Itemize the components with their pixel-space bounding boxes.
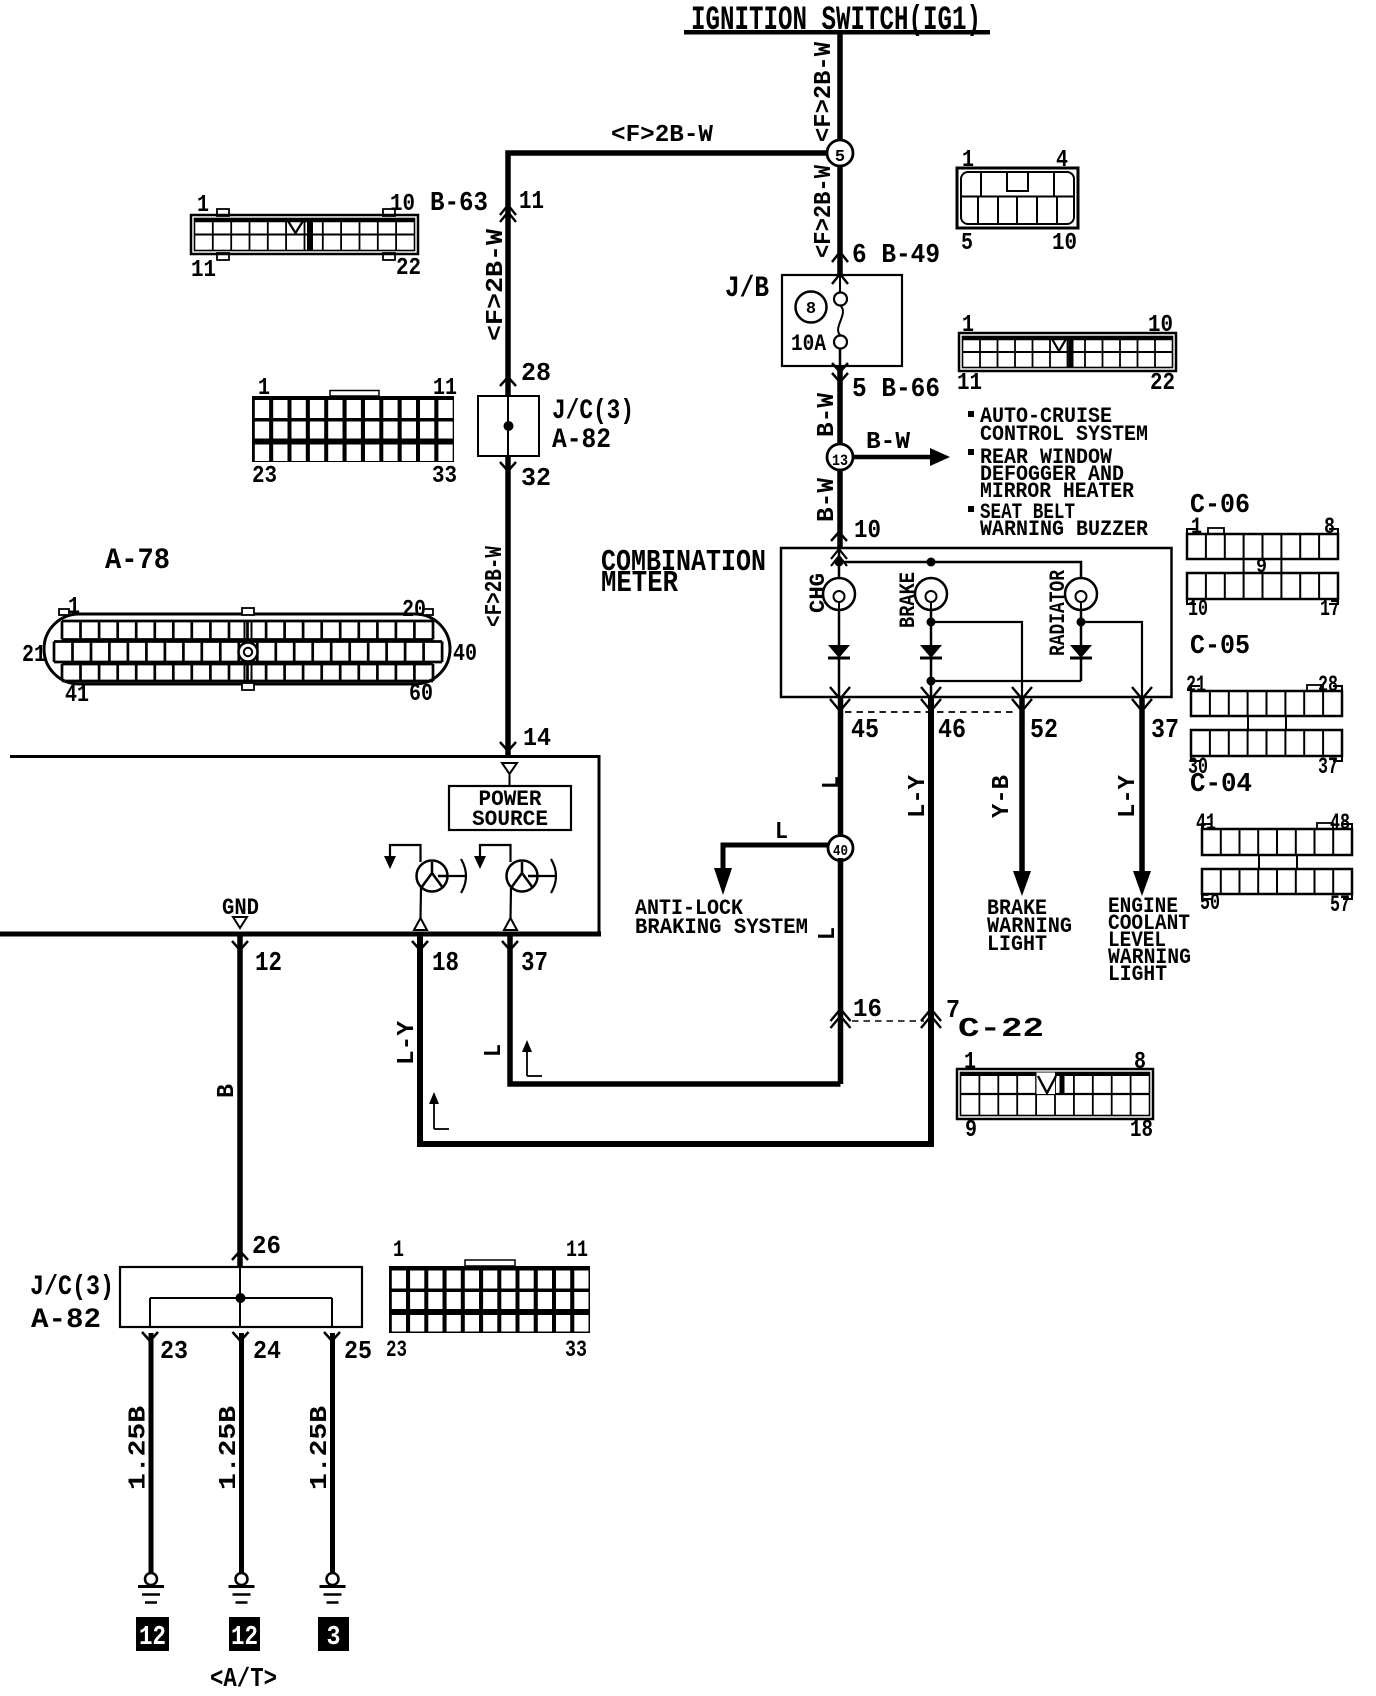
ground symbol 3 <box>320 1573 346 1603</box>
svg-text:A-78: A-78 <box>105 544 170 578</box>
wire L from pin 37 to junction 16 <box>510 934 841 1084</box>
wire (F)2B-W from J/C(3) to combination meter power pin 14 <box>505 456 511 756</box>
connector C-05 pinout diagram <box>1186 632 1342 780</box>
svg-text:40: 40 <box>453 641 477 668</box>
svg-text:48: 48 <box>1330 810 1350 836</box>
svg-text:40: 40 <box>833 843 848 860</box>
connector B-63 pinout diagram <box>191 191 421 284</box>
svg-text:C-22: C-22 <box>958 1015 1044 1045</box>
svg-text:57: 57 <box>1330 892 1350 918</box>
svg-text:18: 18 <box>432 949 459 979</box>
combination meter lower box <box>10 755 599 758</box>
junction node 5 <box>827 140 853 166</box>
svg-text:J/C(3): J/C(3) <box>552 396 634 427</box>
svg-text:50: 50 <box>1200 890 1220 916</box>
connector pin chevron 28 into J/C(3) <box>500 377 516 386</box>
svg-text:1.25B: 1.25B <box>216 1406 243 1490</box>
svg-text:37: 37 <box>1318 754 1338 780</box>
svg-text:8: 8 <box>1324 514 1335 540</box>
svg-text:41: 41 <box>65 682 89 709</box>
wire 1.25B ground lead 1 <box>149 1333 154 1573</box>
svg-text:B: B <box>214 1084 241 1098</box>
svg-text:11: 11 <box>191 257 216 284</box>
svg-text:<F>2B-W: <F>2B-W <box>611 122 714 149</box>
svg-text:B-W: B-W <box>814 392 841 437</box>
connector pin chevrons 45 46 52 37 <box>830 687 850 699</box>
power input triangle <box>502 763 517 774</box>
meter internal bus <box>839 562 1081 578</box>
svg-text:23: 23 <box>386 1337 407 1363</box>
svg-text:1.25B: 1.25B <box>307 1406 334 1490</box>
svg-text:10: 10 <box>1148 312 1173 339</box>
connector pin chevron 10 <box>831 532 847 541</box>
svg-text:32: 32 <box>521 463 551 493</box>
connector pin chevron 12 <box>232 941 248 950</box>
svg-text:21: 21 <box>22 642 46 669</box>
svg-text:C-05: C-05 <box>1190 632 1250 662</box>
svg-text:60: 60 <box>409 681 433 708</box>
ground reference box 12 <box>136 1617 169 1653</box>
svg-text:Y-B: Y-B <box>989 775 1016 818</box>
wire L-Y from pin 37 to engine coolant level warning light <box>1139 697 1145 873</box>
connector B-66 pinout diagram <box>957 312 1176 397</box>
wire radiator diode to brake wire <box>931 680 1081 682</box>
dashed connector boundary line <box>845 711 1016 713</box>
svg-text:20: 20 <box>402 597 426 624</box>
svg-text:5: 5 <box>835 148 845 167</box>
fuse F8 10A symbol <box>839 275 841 293</box>
connector pin chevron 6 into B-49 <box>832 252 848 262</box>
svg-text:L: L <box>775 819 788 846</box>
svg-text:WARNING BUZZER: WARNING BUZZER <box>980 517 1149 542</box>
svg-text:6 B-49: 6 B-49 <box>852 241 940 271</box>
svg-text:10: 10 <box>390 191 415 218</box>
svg-text:<F>2B-W: <F>2B-W <box>482 546 509 627</box>
svg-text:11: 11 <box>433 375 457 402</box>
wire 1.25B ground lead 2 <box>239 1333 244 1573</box>
svg-text:25: 25 <box>344 1336 372 1366</box>
connector pin chevron 7 C-22 <box>921 1009 941 1021</box>
wire ignition switch to J/B (F)2B-W <box>837 32 843 275</box>
svg-text:22: 22 <box>396 255 421 282</box>
wire branch to pin 37 <box>1081 622 1142 697</box>
svg-text:<A/T>: <A/T> <box>210 1665 277 1695</box>
connector pin chevron 26 <box>232 1251 248 1260</box>
svg-text:28: 28 <box>521 358 551 388</box>
junction connector J/C(3) A-82 lower box <box>120 1267 362 1327</box>
svg-text:<F>2B-W: <F>2B-W <box>811 41 838 142</box>
svg-text:33: 33 <box>565 1337 587 1363</box>
svg-text:BRAKING SYSTEM: BRAKING SYSTEM <box>635 915 808 940</box>
connector A-82 pinout diagram (lower) <box>386 1237 590 1363</box>
svg-text:METER: METER <box>601 566 678 601</box>
svg-text:<F>2B-W: <F>2B-W <box>483 228 510 341</box>
svg-text:B-W: B-W <box>866 429 911 456</box>
connector C-06 pinout diagram <box>1187 491 1340 622</box>
svg-text:11: 11 <box>519 186 544 216</box>
connector pin chevron 18 <box>412 941 428 950</box>
junction node 40 <box>828 836 853 861</box>
wire B-W branch arrow to other systems <box>853 455 932 460</box>
wire B from GND pin 12 <box>237 934 243 1267</box>
svg-text:BRAKE: BRAKE <box>896 572 921 628</box>
svg-text:1: 1 <box>68 594 80 621</box>
svg-text:16: 16 <box>853 994 882 1024</box>
svg-text:8: 8 <box>1134 1049 1146 1076</box>
ground symbol 2 <box>229 1573 255 1603</box>
svg-text:C-04: C-04 <box>1190 770 1252 800</box>
svg-text:L-Y: L-Y <box>394 1020 421 1065</box>
svg-text:1: 1 <box>258 375 270 402</box>
svg-text:12: 12 <box>231 1623 258 1653</box>
svg-text:B-W: B-W <box>814 477 841 522</box>
svg-text:10: 10 <box>1188 596 1208 622</box>
svg-text:A-82: A-82 <box>552 425 611 456</box>
svg-text:12: 12 <box>139 1623 166 1653</box>
svg-text:LIGHT: LIGHT <box>987 932 1047 957</box>
svg-text:1: 1 <box>1191 514 1202 540</box>
lamp RADIATOR <box>1046 569 1097 656</box>
svg-text:A-82: A-82 <box>31 1305 101 1336</box>
svg-text:33: 33 <box>432 463 457 490</box>
svg-text:23: 23 <box>160 1336 188 1366</box>
power source box <box>449 786 571 830</box>
svg-text:SOURCE: SOURCE <box>472 807 548 832</box>
svg-text:8: 8 <box>806 300 816 319</box>
lamp CHG <box>806 573 855 613</box>
connector pin chevron 5 of B-66 <box>832 363 848 372</box>
connector pin chevron 16 C-22 <box>831 1009 851 1021</box>
svg-text:46: 46 <box>938 716 966 746</box>
junction connector J/C(3) A-82 box <box>478 396 539 456</box>
junction node 13 <box>827 444 853 470</box>
svg-text:23: 23 <box>252 463 277 490</box>
svg-text:5: 5 <box>961 230 973 257</box>
svg-text:1: 1 <box>962 147 974 174</box>
svg-text:12: 12 <box>255 949 282 979</box>
svg-text:17: 17 <box>1320 596 1340 622</box>
branch direction arrow near wire 18 corner <box>433 1102 435 1129</box>
svg-text:RADIATOR: RADIATOR <box>1046 569 1071 656</box>
svg-text:14: 14 <box>523 723 551 753</box>
lamp BRAKE <box>896 572 947 628</box>
svg-text:1: 1 <box>197 192 209 219</box>
svg-text:4: 4 <box>1056 147 1068 174</box>
wire Y-B from pin 52 to brake warning light <box>1019 697 1025 873</box>
fuse number circle 8 <box>796 292 827 323</box>
connector C-04 pinout diagram <box>1190 770 1352 918</box>
wire 1.25B ground lead 3 <box>330 1333 335 1573</box>
diode D2 under BRAKE <box>930 610 933 646</box>
combination meter box <box>781 548 1172 697</box>
svg-text:1: 1 <box>393 1237 404 1263</box>
diode D1 under CHG <box>838 610 841 646</box>
svg-text:37: 37 <box>521 949 548 979</box>
svg-text:11: 11 <box>566 1237 588 1263</box>
svg-text:26: 26 <box>252 1231 281 1261</box>
svg-text:21: 21 <box>1186 672 1206 698</box>
svg-text:L: L <box>819 776 846 789</box>
wire L-Y from pin 46 to C-22 pin 7 <box>420 697 931 1144</box>
svg-text:22: 22 <box>1150 370 1175 397</box>
ground reference box 12 (second) <box>229 1617 260 1653</box>
dashed line between pins 16 and 7 <box>852 1020 924 1022</box>
junction block J/B box <box>782 275 902 366</box>
connector A-82 pinout diagram (upper) <box>252 375 457 490</box>
connector pin chevrons 23 24 25 <box>142 1332 158 1341</box>
svg-text:3: 3 <box>327 1623 341 1653</box>
wire (F)2B-W branch to B-63 <box>508 153 826 396</box>
wire L from pin 45 <box>838 697 844 838</box>
svg-text:CONTROL SYSTEM: CONTROL SYSTEM <box>980 422 1148 447</box>
wire L arrow to anti-lock braking system <box>723 845 829 868</box>
svg-text:J/C(3): J/C(3) <box>30 1272 114 1303</box>
svg-text:9: 9 <box>965 1117 977 1144</box>
ground reference box 3 <box>318 1617 349 1653</box>
svg-text:10A: 10A <box>791 331 826 357</box>
svg-text:B-63: B-63 <box>430 189 488 219</box>
connector C-22 pinout diagram <box>957 1049 1153 1144</box>
wire branch to pin 52 <box>931 622 1022 697</box>
svg-text:24: 24 <box>253 1336 281 1366</box>
branch direction arrow near wire 37 corner <box>526 1050 528 1076</box>
connector B-49 pinout diagram <box>957 147 1078 257</box>
svg-text:9: 9 <box>1256 556 1267 579</box>
svg-text:28: 28 <box>1318 672 1338 698</box>
svg-text:45: 45 <box>851 716 879 746</box>
svg-text:13: 13 <box>832 452 848 470</box>
svg-text:CHG: CHG <box>806 573 831 613</box>
svg-text:L-Y: L-Y <box>1115 774 1142 818</box>
wire pin10 into meter <box>838 548 841 578</box>
transistor Q1 <box>384 845 466 930</box>
node list: auto-cruise etc <box>968 411 974 417</box>
connector pin chevron 14 <box>500 742 516 751</box>
svg-text:L: L <box>815 927 842 940</box>
svg-text:11: 11 <box>957 370 982 397</box>
connector A-78 pinout diagram <box>22 544 477 709</box>
svg-text:1: 1 <box>962 312 974 339</box>
wire B-W from J/B to combination meter <box>837 366 843 548</box>
svg-text:<F>2B-W: <F>2B-W <box>811 164 838 258</box>
svg-text:L-Y: L-Y <box>905 774 932 818</box>
wire L from junction 40 down <box>838 858 844 1084</box>
connector pin chevron 11 of B-63 <box>500 205 516 215</box>
svg-text:5 B-66: 5 B-66 <box>852 375 940 405</box>
transistor Q2 <box>474 845 556 930</box>
ground symbol 1 <box>138 1573 164 1603</box>
svg-text:10: 10 <box>1052 230 1077 257</box>
svg-text:1.25B: 1.25B <box>126 1406 153 1490</box>
connector pin chevron 37 <box>502 941 518 950</box>
svg-text:37: 37 <box>1151 716 1179 746</box>
svg-text:1: 1 <box>964 1049 976 1076</box>
svg-text:18: 18 <box>1130 1117 1153 1144</box>
svg-text:52: 52 <box>1030 716 1058 746</box>
svg-text:J/B: J/B <box>725 272 769 306</box>
connector pin chevron 32 out of J/C(3) <box>500 462 516 471</box>
svg-text:10: 10 <box>854 515 881 545</box>
svg-text:L: L <box>481 1044 508 1057</box>
title underline bus bar <box>684 30 990 35</box>
svg-text:41: 41 <box>1196 810 1216 836</box>
svg-text:LIGHT: LIGHT <box>1108 962 1167 987</box>
diode D3 under RADIATOR <box>1080 610 1083 646</box>
